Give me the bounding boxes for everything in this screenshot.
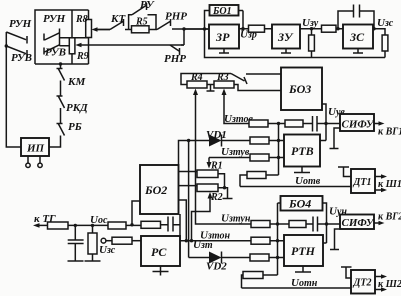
node Uзу <box>310 27 313 30</box>
node Uун <box>325 222 328 225</box>
wire R3 out to БО3 <box>234 85 281 91</box>
svg-text:СИФУ: СИФУ <box>342 217 375 229</box>
wire БО4 right drop <box>323 203 327 243</box>
bracket ДТ1 top <box>338 167 351 177</box>
resistor Uзс to ground <box>382 35 388 58</box>
resistor Uзс row <box>112 237 141 244</box>
wire R1 R2 right join <box>218 174 225 188</box>
capacitor ТГ filter <box>68 225 84 261</box>
node Vc Uзтон <box>190 239 193 242</box>
node РНР riser top <box>182 27 185 30</box>
wire R9 branch <box>72 10 89 64</box>
wire РТВ output <box>320 140 326 142</box>
resistor Uзу to ground <box>309 29 315 58</box>
wire БО2 to R1 <box>179 171 198 173</box>
switch КМ <box>57 64 65 81</box>
wire R8 wiper with arrow <box>92 27 111 32</box>
resistor ТГ input <box>48 222 109 229</box>
node ТГ filter <box>74 224 77 227</box>
block ЗР <box>209 25 239 49</box>
wire ЗР input rail <box>184 28 209 30</box>
terminal circles under ИП <box>26 156 42 168</box>
wire СИФУ2 output arrow к ВГ2 <box>374 221 385 225</box>
wire БО2 feedback loop left <box>132 201 140 225</box>
capacitor РТН feedback <box>306 217 340 232</box>
svg-text:Uзс: Uзс <box>377 17 394 29</box>
wire БО2 to R2 <box>179 185 198 187</box>
svg-text:к Ш2: к Ш2 <box>378 279 401 290</box>
wire к ТГ arrow <box>33 223 48 228</box>
wire СИФУ1 output arrow к ВГ1 <box>374 121 385 125</box>
wire ЗУ output <box>300 28 343 30</box>
svg-text:R4: R4 <box>190 72 203 83</box>
wire Uзтон into РТН <box>251 240 284 242</box>
svg-text:Uзтун: Uзтун <box>221 213 251 225</box>
node rail РТВ row3 <box>277 156 280 159</box>
svg-text:Uзу: Uзу <box>302 17 319 29</box>
arrows ДТ1 к Ш1 <box>375 174 387 192</box>
svg-text:R3: R3 <box>216 72 229 83</box>
wire R5 bypass loop <box>129 15 156 30</box>
switch РУН (left) <box>6 32 27 44</box>
resistor РТВ feedback <box>285 120 303 127</box>
wire VD1 feed from БО2 <box>179 141 210 166</box>
block РС <box>141 236 180 266</box>
resistor Uзтун row <box>251 221 289 228</box>
svg-text:к ВГ1: к ВГ1 <box>378 127 401 138</box>
block ЗУ <box>272 25 300 49</box>
svg-text:РУВ: РУВ <box>45 47 66 59</box>
wire РТН row4 from Uотн <box>242 275 244 288</box>
svg-text:РТН: РТН <box>291 244 316 258</box>
svg-text:R8: R8 <box>75 14 88 25</box>
node Uoc <box>91 224 94 227</box>
svg-text:БО2: БО2 <box>144 183 167 197</box>
switch РНР lower <box>170 45 184 55</box>
block ИП <box>21 138 49 156</box>
block СИФУ 2 <box>340 215 375 230</box>
ground ЗС <box>353 49 363 54</box>
svg-text:РБ: РБ <box>68 121 82 133</box>
switch to БО3 <box>231 74 281 85</box>
node rail РТВ row2 <box>277 139 280 142</box>
resistor ЗР-ЗУ <box>249 25 265 32</box>
capacitor РТВ feedback <box>303 116 340 132</box>
ground СИФУ1 <box>330 128 341 149</box>
ground СИФУ2 <box>330 229 339 250</box>
node R1R2 <box>223 186 226 189</box>
wire R4 wiper V3 <box>193 89 251 225</box>
wire БО2 output elbow Va <box>179 200 187 241</box>
svg-text:БО3: БО3 <box>288 82 311 96</box>
resistor R2 <box>197 184 218 192</box>
wire Uотн line to ДТ2 <box>242 287 352 289</box>
diode VD2 <box>189 252 250 264</box>
resistor РС feedback <box>141 221 168 228</box>
svg-text:РНР: РНР <box>165 11 187 23</box>
svg-text:КМ: КМ <box>67 76 86 88</box>
svg-text:ЗР: ЗР <box>215 30 230 44</box>
svg-text:БО4: БО4 <box>288 197 311 211</box>
svg-text:РКД: РКД <box>66 102 88 114</box>
block БО4 <box>281 196 323 211</box>
wire R4 R3 top loop <box>181 74 231 85</box>
svg-text:РУН: РУН <box>43 13 66 25</box>
ground between R4 R3 <box>207 85 215 92</box>
resistor Uзтув row <box>250 154 284 161</box>
wire РБ to ИП <box>49 136 61 148</box>
switch РБ <box>57 108 65 136</box>
ground РС <box>153 266 169 276</box>
node БО1 left tap <box>203 27 206 30</box>
node left bus / РУВ tap <box>5 44 8 47</box>
resistor Uoc to ground <box>85 225 101 261</box>
resistor РТВ row4 <box>247 172 279 179</box>
relay contact box <box>35 10 89 64</box>
wire РТВ row4 from Uотв <box>240 175 247 187</box>
block БО3 <box>281 68 322 111</box>
svg-text:ЗУ: ЗУ <box>277 30 294 44</box>
svg-text:к ВГ2: к ВГ2 <box>378 212 401 223</box>
svg-text:Uзтув: Uзтув <box>221 146 250 158</box>
wire summing rail РТН <box>278 203 281 275</box>
block ЗС <box>343 25 373 49</box>
wire БО1 loop <box>205 11 244 30</box>
wire КТ line <box>95 29 129 31</box>
svg-text:ИП: ИП <box>26 143 45 155</box>
svg-text:КТ: КТ <box>110 13 126 25</box>
svg-text:РУ: РУ <box>140 0 155 11</box>
bracket ДТ2 top <box>341 267 352 278</box>
wire left bus <box>6 32 21 147</box>
svg-text:СИФУ: СИФУ <box>342 119 375 131</box>
block БО2 <box>140 165 179 214</box>
svg-text:R1: R1 <box>210 161 223 172</box>
svg-text:РУВ: РУВ <box>11 52 32 64</box>
svg-text:Uзт: Uзт <box>193 239 213 251</box>
svg-text:РТВ: РТВ <box>291 144 314 158</box>
wire ЗР to ЗУ <box>239 28 272 30</box>
wire РС output to Uзтон row <box>180 240 251 242</box>
switch РУ <box>132 3 147 15</box>
resistor R9 <box>69 38 75 54</box>
wire summing rail РТВ <box>278 124 280 176</box>
wire R9 wiper with arrow (long line) <box>75 43 184 48</box>
svg-text:Uотн: Uотн <box>291 277 318 289</box>
svg-text:к Ш1: к Ш1 <box>378 179 401 190</box>
block СИФУ 1 <box>340 114 375 131</box>
node ЗС output tap <box>372 27 375 30</box>
resistor VD2 row3 <box>250 254 269 261</box>
wire vertical V2 Uзт <box>188 141 190 258</box>
svg-text:R9: R9 <box>76 51 89 62</box>
block ДТ2 <box>351 270 375 294</box>
switch РУВ (left) <box>6 46 27 58</box>
wire РНР riser <box>183 29 185 45</box>
resistor ЗУ-ЗС <box>322 25 337 32</box>
wire БО3 right drop to Uув node <box>322 104 326 141</box>
ground РТН <box>295 266 311 272</box>
node rail РТВ row1 <box>277 122 280 125</box>
svg-text:Uзс: Uзс <box>99 244 116 256</box>
node VD1 row V2 <box>187 139 190 142</box>
node box bottom <box>59 62 62 65</box>
resistor R3 <box>214 81 234 88</box>
resistor РТН feedback <box>289 221 306 228</box>
block БО1 <box>210 5 239 17</box>
wire РС output rail <box>179 214 181 241</box>
block РТН <box>284 235 323 266</box>
wire VD2 row into РТН <box>250 257 284 259</box>
node rail РТН row2 <box>276 239 279 242</box>
wire contact bar to R9 <box>60 29 73 47</box>
switch КТ <box>110 19 124 30</box>
ground R1R2 <box>223 188 233 199</box>
diode VD1 <box>209 135 250 147</box>
wire Uотв line to ДТ1 <box>240 186 351 188</box>
resistor Uoc row <box>108 222 141 229</box>
svg-text:РС: РС <box>151 245 167 259</box>
svg-text:VD2: VD2 <box>206 261 227 273</box>
terminal Uзс circle <box>101 238 112 243</box>
wire РТН output <box>323 242 327 244</box>
node rail РТН row3 <box>276 256 279 259</box>
svg-text:РНР: РНР <box>164 53 186 65</box>
wire R3 wiper <box>222 89 250 124</box>
ground ЗУ <box>281 49 291 54</box>
node БО1 right tap <box>241 27 244 30</box>
svg-text:Uотв: Uотв <box>295 175 321 187</box>
resistor VD1 row <box>250 137 284 144</box>
block РТВ <box>284 135 320 167</box>
svg-text:ДТ1: ДТ1 <box>353 177 372 188</box>
resistor Uзтов input <box>249 120 285 127</box>
svg-text:R5: R5 <box>135 17 148 28</box>
switch РУН (in box) <box>44 33 60 41</box>
switch РНР upper <box>156 19 209 30</box>
resistor R1 <box>197 170 218 178</box>
resistor R8 <box>86 20 92 38</box>
resistor R5 <box>132 26 150 33</box>
capacitor ЗС feedback loop <box>338 5 374 29</box>
resistor Uзтон row2 <box>251 237 270 244</box>
wire R2 wiper <box>192 192 213 241</box>
wire ЗС output <box>373 29 385 35</box>
block ДТ1 <box>351 169 375 193</box>
node БО2 summing <box>130 223 133 226</box>
svg-text:ЗС: ЗС <box>349 30 365 44</box>
ground ЗР <box>219 49 229 54</box>
svg-text:ДТ2: ДТ2 <box>353 278 372 289</box>
switch РКД <box>57 81 65 109</box>
switch РУВ (in box) <box>44 45 60 55</box>
arrows ДТ2 к Ш2 <box>375 274 387 291</box>
node Uув <box>324 122 327 125</box>
resistor R4 <box>187 81 207 88</box>
node rail РТН row1 <box>276 222 279 225</box>
wire ground rail common <box>205 29 386 58</box>
wire R1 wiper from Uзтув row <box>207 158 251 169</box>
ground РТВ <box>294 167 310 173</box>
svg-text:БО1: БО1 <box>212 6 232 17</box>
node Va Uзтон <box>185 239 188 242</box>
resistor РТН row4 <box>243 272 278 279</box>
node ЗС cap left tap <box>336 27 339 30</box>
svg-text:РУН: РУН <box>9 18 32 30</box>
capacitor РС feedback <box>168 217 180 232</box>
